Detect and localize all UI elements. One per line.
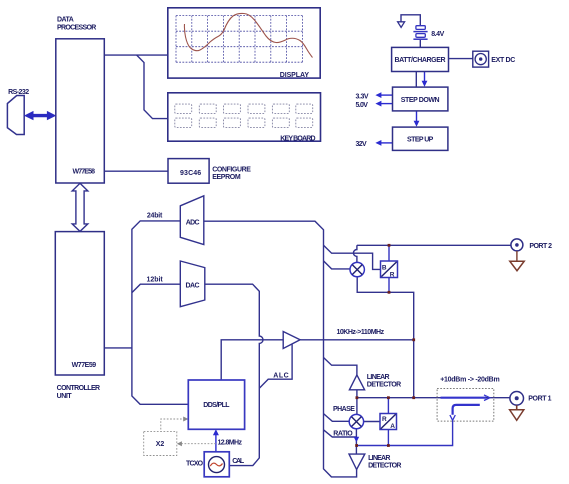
R/A ratio box	[380, 414, 397, 430]
svg-text:10KHz->110MHz: 10KHz->110MHz	[337, 329, 385, 336]
wire mixer M1 output	[357, 277, 414, 398]
X2 multiplier (dashed)	[144, 432, 177, 456]
PORT 1 ground	[510, 405, 524, 420]
battery 8.4V	[413, 26, 444, 40]
wire bus tap RATIO	[324, 430, 357, 437]
svg-text:ADC: ADC	[186, 220, 200, 227]
junction node R/A top	[387, 396, 390, 399]
display grid	[176, 16, 302, 63]
box STEP DOWN	[393, 87, 448, 111]
junction node detector D1 output	[356, 396, 359, 399]
svg-text:8.4V: 8.4V	[431, 31, 444, 38]
ADC converter	[180, 196, 204, 245]
arrow 32V	[356, 140, 393, 148]
svg-text:PROCESSOR: PROCESSOR	[57, 24, 96, 31]
svg-text:DETECTOR: DETECTOR	[367, 382, 401, 389]
wire node to mixer M2 top	[356, 398, 358, 415]
junction node detector D2 input	[355, 444, 358, 447]
directional coupler (dashed box)	[437, 377, 500, 421]
box 93C46 CONFIGURE EEPROM	[168, 159, 251, 184]
svg-text:EXT DC: EXT DC	[491, 57, 515, 64]
svg-text:PHASE: PHASE	[333, 406, 355, 413]
svg-text:DAC: DAC	[186, 283, 200, 290]
wire bus tap PHASE to mixer M2	[324, 414, 350, 422]
arrow 3.3V	[356, 92, 393, 100]
svg-text:W77E58: W77E58	[73, 169, 96, 176]
svg-text:PORT 2: PORT 2	[529, 243, 552, 250]
svg-text:TCXO: TCXO	[186, 460, 204, 467]
box W77E59 CONTROLLER UNIT	[55, 232, 104, 401]
digital bus: ADC tap, vertical, to DDS/PLL	[132, 221, 188, 404]
svg-text:CONTROLLER: CONTROLLER	[57, 385, 101, 392]
wire coupled port down to detectors line	[357, 421, 453, 446]
box DISPLAY	[168, 8, 320, 79]
wire mixer M1 top input with hop	[353, 245, 356, 262]
wire battery to BATT/CHARGER	[419, 40, 421, 48]
svg-text:32V: 32V	[356, 141, 368, 148]
wire to PORT 2	[357, 244, 511, 246]
EXT DC connector	[473, 51, 516, 67]
wire W77E58 to DISPLAY	[104, 54, 168, 56]
svg-text:LINEAR: LINEAR	[368, 455, 390, 462]
svg-text:3.3V: 3.3V	[356, 93, 369, 100]
junction node B/R top	[388, 244, 391, 247]
digital bus: DAC tap	[132, 284, 180, 292]
display waveform trace	[184, 13, 312, 57]
svg-text:EEPROM: EEPROM	[212, 174, 241, 181]
wire STEP DOWN to STEP UP (arrow down)	[414, 111, 420, 127]
svg-text:CAL: CAL	[232, 458, 245, 465]
svg-text:DATA: DATA	[57, 17, 74, 24]
PORT 2 connector	[511, 239, 552, 251]
svg-text:DDS/PLL: DDS/PLL	[203, 402, 230, 409]
dashed line DDS/PLL to X2	[161, 417, 189, 432]
svg-text:DETECTOR: DETECTOR	[368, 462, 401, 469]
svg-text:12.8MHz: 12.8MHz	[218, 439, 243, 446]
amplifier	[283, 332, 300, 349]
svg-text:R: R	[390, 272, 395, 279]
svg-text:B: B	[382, 264, 387, 271]
svg-text:24bit: 24bit	[147, 212, 163, 219]
svg-text:UNIT: UNIT	[57, 393, 73, 400]
DDS/PLL box	[188, 380, 244, 429]
svg-text:R: R	[382, 416, 387, 423]
box W77E58 DATA PROCESSOR	[56, 17, 105, 183]
svg-text:STEP DOWN: STEP DOWN	[401, 97, 440, 104]
keyboard keys	[175, 104, 313, 127]
junction node amplifier/RF	[412, 338, 415, 341]
RS-232 connector	[7, 89, 29, 135]
svg-text:ALC: ALC	[273, 373, 288, 380]
double arrow W77E58 to W77E59	[72, 183, 88, 231]
wire DDS/PLL to amplifier	[221, 340, 283, 380]
svg-text:DISPLAY: DISPLAY	[280, 72, 310, 79]
DAC converter	[180, 261, 205, 307]
svg-text:A: A	[390, 423, 395, 430]
svg-text:KEY BOARD: KEY BOARD	[280, 135, 315, 142]
svg-text:RATIO: RATIO	[333, 430, 353, 437]
svg-text:STEP UP: STEP UP	[407, 136, 434, 143]
wire ALC from amplifier	[259, 345, 292, 389]
wire TCXO to DDS/PLL (12.8MHz arrow)	[213, 429, 243, 452]
arrow 5.0V	[356, 101, 393, 109]
wire amplifier output to RF node	[300, 339, 414, 341]
TCXO oscillator	[186, 452, 245, 477]
wire detector D1 output	[356, 390, 358, 398]
box BATT/CHARGER	[392, 47, 449, 71]
wire ADC output to analog bus	[204, 221, 357, 477]
wire R/A top	[387, 398, 389, 414]
box STEP UP	[393, 127, 448, 150]
svg-text:5.0V: 5.0V	[356, 102, 369, 109]
svg-text:PORT 1: PORT 1	[528, 395, 551, 402]
main RF line to PORT 1	[357, 397, 510, 399]
svg-text:BATT/CHARGER: BATT/CHARGER	[394, 57, 445, 64]
wire B/R bottom	[388, 278, 390, 293]
wire R/A bottom	[387, 430, 389, 446]
dashed line X2 to 12.8MHz line	[177, 441, 216, 446]
wire mixer M2 output to detector D2 with arrow	[354, 429, 360, 454]
wire BATT/CHARGER to STEP DOWN (plain)	[415, 72, 417, 88]
junction node R/A bottom	[387, 444, 390, 447]
linear detector D2 (down)	[349, 454, 401, 469]
wire bus tap to mixer M1 left	[324, 261, 351, 269]
wire BATT/CHARGER to EXT DC	[449, 58, 473, 60]
double arrow RS-232 to W77E58	[25, 111, 56, 119]
PORT 2 ground	[510, 251, 524, 271]
mixer M1	[350, 262, 364, 276]
ground symbol near battery	[398, 15, 421, 28]
PORT 1 connector	[510, 392, 552, 406]
junction node RF down	[412, 396, 415, 399]
svg-text:X 2: X 2	[156, 441, 165, 448]
wire B/R top	[388, 245, 390, 261]
wire bus tap to B/R	[324, 245, 381, 269]
wire W77E58 to 93C46	[104, 170, 168, 172]
svg-text:RS-232: RS-232	[8, 89, 29, 96]
svg-text:93C46: 93C46	[180, 170, 201, 177]
wire W77E59 to analog bus	[104, 347, 132, 349]
svg-text:CONFIGURE: CONFIGURE	[212, 167, 251, 174]
wire mixer M2 right to R/A	[364, 421, 380, 423]
svg-text:W77E59: W77E59	[72, 362, 97, 369]
junction node B/R bottom	[388, 291, 391, 294]
wire bus tap to linear detector D1	[324, 358, 357, 375]
wire branch to KEY BOARD	[137, 55, 168, 119]
svg-text:+10dBm -> -20dBm: +10dBm -> -20dBm	[440, 377, 500, 384]
svg-text:12bit: 12bit	[147, 276, 164, 283]
box KEY BOARD	[168, 93, 321, 143]
svg-text:LINEAR: LINEAR	[367, 374, 390, 381]
B/R ratio box	[381, 261, 398, 279]
wire BATT/CHARGER to STEP DOWN (arrow down)	[422, 72, 428, 87]
linear detector D1 (up)	[349, 374, 401, 390]
wire DAC output down (ALC/CAL bus) with hop	[205, 284, 263, 465]
mixer M2 PHASE	[333, 406, 364, 437]
